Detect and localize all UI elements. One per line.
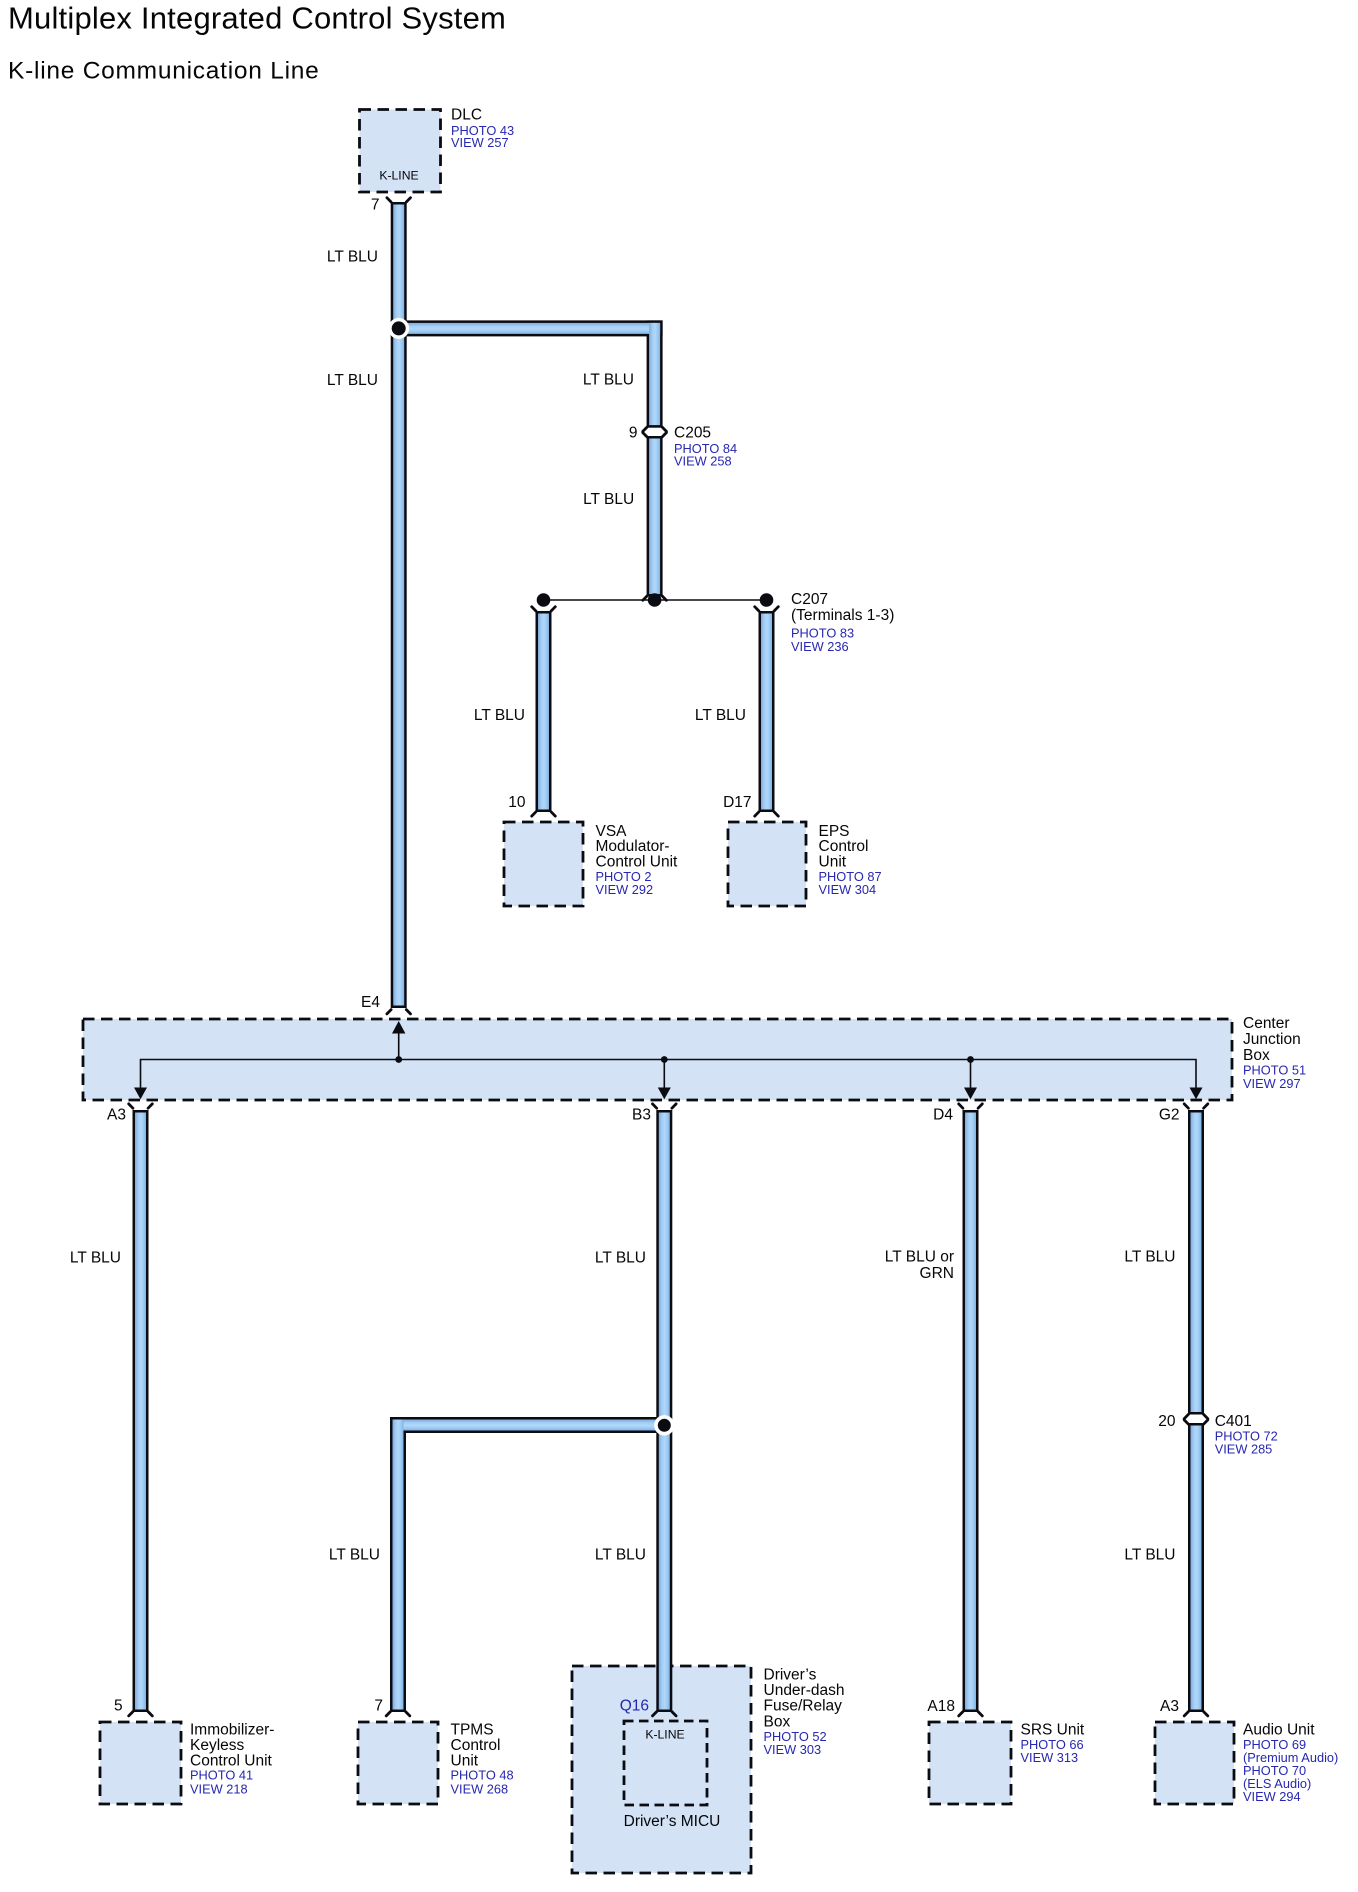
terminal at CJB pin A3 [129, 1104, 153, 1108]
wire G2 to C401 (black outline) [1188, 1110, 1204, 1415]
svg-text:LT BLU: LT BLU [327, 372, 378, 389]
box Immobilizer-Keyless Control Unit [100, 1722, 181, 1804]
svg-text:Junction: Junction [1243, 1031, 1301, 1048]
svg-text:(Terminals 1-3): (Terminals 1-3) [791, 607, 894, 624]
terminal at VSA pin 10 [532, 812, 556, 816]
svg-text:K-LINE: K-LINE [645, 1728, 684, 1742]
wire label LT BLU or GRN (D4) [885, 1249, 954, 1282]
svg-text:VIEW 304: VIEW 304 [819, 882, 877, 897]
wire D4 to SRS (black outline) [963, 1110, 979, 1712]
svg-text:Driver’s: Driver’s [764, 1667, 817, 1684]
connector C401 (in-line) [1184, 1414, 1208, 1418]
svg-text:A3: A3 [107, 1107, 126, 1124]
svg-text:E4: E4 [361, 994, 380, 1011]
label EPS [819, 823, 882, 897]
box Audio Unit [1155, 1722, 1234, 1804]
svg-text:A18: A18 [927, 1698, 955, 1715]
terminal at Q16 [653, 1712, 677, 1716]
svg-text:DLC: DLC [451, 107, 482, 124]
svg-text:LT BLU or: LT BLU or [885, 1249, 954, 1266]
svg-text:LT BLU: LT BLU [329, 1547, 380, 1564]
connector C205 (in-line) [643, 427, 667, 431]
svg-text:LT BLU: LT BLU [327, 249, 378, 266]
svg-text:LT BLU: LT BLU [1124, 1249, 1175, 1266]
svg-text:PHOTO 48: PHOTO 48 [451, 1768, 514, 1783]
wire DLC pin7 to E4 (vertical, black outline) [391, 202, 407, 1008]
svg-text:Unit: Unit [819, 853, 847, 870]
terminal at DLC pin 7 [387, 198, 411, 202]
label DLC [451, 107, 514, 151]
svg-text:LT BLU: LT BLU [474, 707, 525, 724]
terminal at EPS pin D17 [755, 812, 779, 816]
svg-text:VIEW 294: VIEW 294 [1243, 1789, 1301, 1804]
label Center Junction Box [1243, 1015, 1306, 1091]
terminal above C207 line [643, 596, 667, 600]
box VSA Modulator-Control Unit [504, 822, 583, 906]
svg-text:Driver’s MICU: Driver’s MICU [624, 1813, 721, 1830]
svg-text:VIEW 285: VIEW 285 [1215, 1442, 1273, 1457]
wire TPMS vertical (black outline) [390, 1417, 406, 1712]
svg-text:VIEW 297: VIEW 297 [1243, 1076, 1301, 1091]
box Center Junction Box [83, 1019, 1232, 1100]
terminal at Immobilizer pin 5 [129, 1712, 153, 1716]
terminal at CJB pin D4 [959, 1104, 983, 1108]
label Audio Unit [1243, 1722, 1338, 1805]
wire fills (light blue) [393, 205, 404, 1006]
terminal at SRS pin A18 [959, 1712, 983, 1716]
svg-text:D4: D4 [933, 1107, 953, 1124]
label Driver's Under-dash Fuse/Relay Box [764, 1667, 845, 1758]
C207 bus line [544, 599, 767, 601]
svg-text:C205: C205 [674, 424, 711, 441]
svg-text:VIEW 258: VIEW 258 [674, 454, 732, 469]
node C207 terminal 3 [760, 593, 774, 607]
svg-text:LT BLU: LT BLU [70, 1250, 121, 1267]
box EPS Control Unit [728, 822, 806, 906]
svg-text:LT BLU: LT BLU [595, 1547, 646, 1564]
terminal at CJB pin G2 [1184, 1104, 1208, 1108]
label C207 [791, 591, 894, 654]
label C205 [674, 424, 737, 468]
CJB internal bus line with arrows [134, 1021, 1203, 1099]
terminal below C207 dot left [532, 607, 556, 611]
label Immobilizer-Keyless Control Unit [190, 1722, 274, 1797]
svg-text:Box: Box [1243, 1047, 1270, 1064]
svg-text:LT BLU: LT BLU [583, 372, 634, 389]
terminal at CJB pin B3 [653, 1104, 677, 1108]
svg-text:VIEW 236: VIEW 236 [791, 639, 849, 654]
junction dot on DLC wire [388, 318, 409, 339]
wire C205 to C207 (black outline) [647, 436, 663, 597]
svg-text:9: 9 [629, 424, 638, 441]
svg-text:Fuse/Relay: Fuse/Relay [764, 1698, 843, 1715]
svg-text:VIEW 218: VIEW 218 [190, 1782, 248, 1797]
terminal at TPMS pin 7 [386, 1712, 410, 1716]
terminal at Audio pin A3 [1184, 1712, 1208, 1716]
svg-text:PHOTO 41: PHOTO 41 [190, 1768, 253, 1783]
svg-text:C401: C401 [1215, 1413, 1252, 1430]
svg-text:7: 7 [371, 197, 380, 214]
svg-text:Audio Unit: Audio Unit [1243, 1722, 1315, 1739]
svg-text:A3: A3 [1160, 1698, 1179, 1715]
svg-text:LT BLU: LT BLU [1124, 1547, 1175, 1564]
svg-text:Center: Center [1243, 1015, 1290, 1032]
svg-text:B3: B3 [632, 1107, 651, 1124]
terminal below C207 dot right [755, 607, 779, 611]
label TPMS Control Unit [451, 1722, 514, 1797]
wire branch to C205 (horizontal, black outline) [391, 320, 663, 336]
wire A3 to Immobilizer (black outline) [133, 1110, 149, 1712]
box TPMS Control Unit [358, 1722, 438, 1804]
inner box Driver's MICU (K-LINE) [624, 1721, 721, 1830]
svg-text:VIEW 257: VIEW 257 [451, 135, 509, 150]
svg-text:VIEW 303: VIEW 303 [764, 1742, 822, 1757]
node C207 terminal 1 [537, 593, 551, 607]
terminal at CJB pin E4 [387, 1010, 411, 1014]
svg-text:7: 7 [374, 1698, 383, 1715]
wire B3 to Q16 (black outline) [656, 1110, 672, 1712]
svg-text:Multiplex Integrated Control S: Multiplex Integrated Control System [8, 1, 506, 36]
label C401 [1215, 1413, 1278, 1457]
svg-text:SRS Unit: SRS Unit [1021, 1722, 1085, 1739]
svg-text:VIEW 313: VIEW 313 [1021, 1750, 1079, 1765]
wire C207 to EPS (black outline) [759, 611, 775, 812]
svg-text:D17: D17 [723, 794, 751, 811]
wire branch corner down to C205 (black outline) [647, 320, 663, 427]
svg-text:Q16: Q16 [620, 1698, 649, 1715]
svg-text:5: 5 [114, 1698, 123, 1715]
node C207 terminal 2 [648, 593, 662, 607]
svg-text:K-LINE: K-LINE [379, 169, 418, 183]
svg-text:VIEW 292: VIEW 292 [596, 882, 654, 897]
wire C207 to VSA (black outline) [536, 611, 552, 812]
svg-text:G2: G2 [1159, 1107, 1180, 1124]
svg-text:GRN: GRN [920, 1265, 954, 1282]
svg-text:LT BLU: LT BLU [595, 1250, 646, 1267]
svg-text:10: 10 [508, 794, 526, 811]
svg-text:C207: C207 [791, 591, 828, 608]
svg-text:K-line Communication Line: K-line Communication Line [8, 58, 320, 85]
svg-text:Box: Box [764, 1713, 791, 1730]
svg-text:Under-dash: Under-dash [764, 1682, 845, 1699]
wire C401 to Audio (black outline) [1188, 1423, 1204, 1712]
label VSA [596, 823, 679, 897]
connector box DLC [360, 110, 441, 193]
box SRS Unit [929, 1722, 1011, 1804]
label SRS Unit [1021, 1722, 1085, 1766]
svg-text:Control Unit: Control Unit [596, 853, 679, 870]
svg-text:VIEW 268: VIEW 268 [451, 1782, 509, 1797]
svg-text:LT BLU: LT BLU [695, 707, 746, 724]
box Driver's Under-dash Fuse/Relay Box [572, 1666, 751, 1873]
svg-text:20: 20 [1158, 1413, 1176, 1430]
svg-text:LT BLU: LT BLU [583, 491, 634, 508]
junction dot on B3 wire [654, 1415, 674, 1435]
wire branch to TPMS horizontal (black outline) [390, 1417, 668, 1433]
